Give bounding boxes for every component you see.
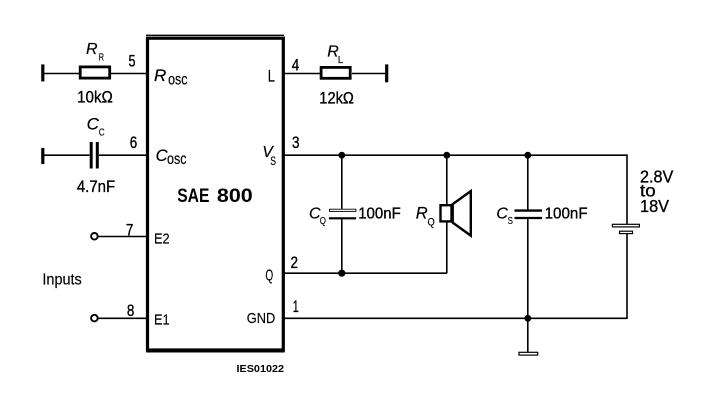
loudspeaker lower wire	[446, 222, 448, 274]
node VS-CQ junction	[338, 152, 345, 159]
svg-text:C: C	[99, 126, 105, 138]
capacitor C3 CS branch: upper wire	[527, 155, 529, 209]
input terminal E1 (pin 8)	[91, 315, 98, 322]
capacitor C2 CQ plates	[309, 206, 356, 228]
wire resistor RL to terminal	[352, 73, 385, 75]
pin 3 supply rail wire	[284, 154, 627, 156]
svg-text:GND: GND	[247, 310, 276, 327]
svg-text:C: C	[87, 115, 100, 134]
svg-text:SAE: SAE	[177, 186, 209, 207]
svg-text:7: 7	[126, 221, 134, 239]
svg-text:5: 5	[129, 53, 136, 71]
label 2.8V to 18V	[640, 167, 674, 217]
capacitor CQ lower wire	[341, 219, 343, 273]
node Q-CQ junction	[338, 270, 345, 277]
svg-text:osc: osc	[167, 151, 187, 168]
input terminal E2 (pin 7)	[91, 233, 98, 240]
svg-text:E2: E2	[154, 230, 170, 247]
svg-text:Q: Q	[320, 215, 326, 227]
battery V1 branch: upper wire	[626, 154, 628, 224]
svg-text:L: L	[268, 68, 275, 86]
svg-text:6: 6	[130, 134, 138, 152]
svg-text:4: 4	[292, 57, 300, 75]
pin name Rosc	[154, 66, 188, 89]
svg-text:Q: Q	[428, 217, 436, 229]
svg-text:4.7nF: 4.7nF	[77, 178, 115, 196]
svg-text:IES01022: IES01022	[237, 363, 285, 375]
wire E1 to pin 8	[98, 317, 147, 319]
node VS-RQ junction	[443, 152, 450, 159]
svg-text:osc: osc	[168, 72, 188, 89]
capacitor CS lower wire	[527, 219, 529, 318]
svg-text:C: C	[496, 206, 508, 223]
capacitor C2 CQ branch: upper wire	[341, 155, 343, 209]
svg-text:R: R	[416, 204, 428, 222]
resistor R2 RL	[319, 44, 354, 108]
pin 2 wire (Q)	[284, 272, 447, 274]
svg-text:3: 3	[292, 134, 300, 152]
ground stub wire	[527, 318, 529, 352]
terminal pin 5	[41, 64, 44, 81]
node GND-CS junction	[524, 315, 531, 322]
IC U1 SAE 800 box	[146, 35, 285, 352]
capacitor C3 CS plates	[496, 206, 542, 228]
svg-text:100nF: 100nF	[358, 206, 401, 223]
terminal pin 6	[41, 148, 44, 164]
loudspeaker RQ branch: upper wire	[446, 155, 448, 205]
svg-text:18V: 18V	[640, 196, 669, 216]
wire capacitor CC to IC pin 6	[99, 154, 147, 156]
svg-text:10kΩ: 10kΩ	[77, 87, 113, 106]
pin 4 wire (L)	[284, 73, 320, 75]
svg-text:E1: E1	[154, 312, 170, 329]
svg-text:12kΩ: 12kΩ	[319, 88, 354, 107]
pin 6 wire (Cosc)	[44, 154, 90, 156]
svg-text:Q: Q	[265, 268, 273, 285]
svg-text:C: C	[156, 147, 168, 165]
svg-text:R: R	[154, 66, 166, 85]
wire resistor RR to IC pin 5	[111, 73, 147, 75]
svg-text:R: R	[86, 41, 98, 58]
pin 1 ground rail wire	[284, 317, 627, 319]
loudspeaker RQ	[416, 191, 471, 236]
svg-text:S: S	[270, 154, 276, 168]
pin name VS	[262, 144, 276, 168]
pin name Cosc	[156, 147, 187, 168]
svg-text:800: 800	[217, 186, 253, 207]
svg-text:R: R	[99, 52, 104, 63]
svg-text:L: L	[338, 55, 344, 66]
svg-text:Inputs: Inputs	[42, 272, 81, 289]
ground	[519, 352, 538, 355]
svg-text:8: 8	[127, 302, 135, 320]
svg-text:2: 2	[290, 254, 298, 272]
node VS-CS junction	[524, 152, 531, 159]
svg-text:S: S	[508, 215, 513, 227]
battery V1	[612, 224, 639, 233]
battery lower wire	[626, 234, 628, 319]
resistor R1 RR	[77, 41, 113, 106]
svg-text:1: 1	[293, 298, 299, 316]
wire E2 to pin 7	[98, 236, 147, 238]
pin 5 wire (Rosc)	[44, 73, 79, 75]
svg-text:100nF: 100nF	[545, 206, 588, 223]
capacitor C1 CC	[77, 115, 115, 197]
terminal RL right	[385, 64, 388, 82]
